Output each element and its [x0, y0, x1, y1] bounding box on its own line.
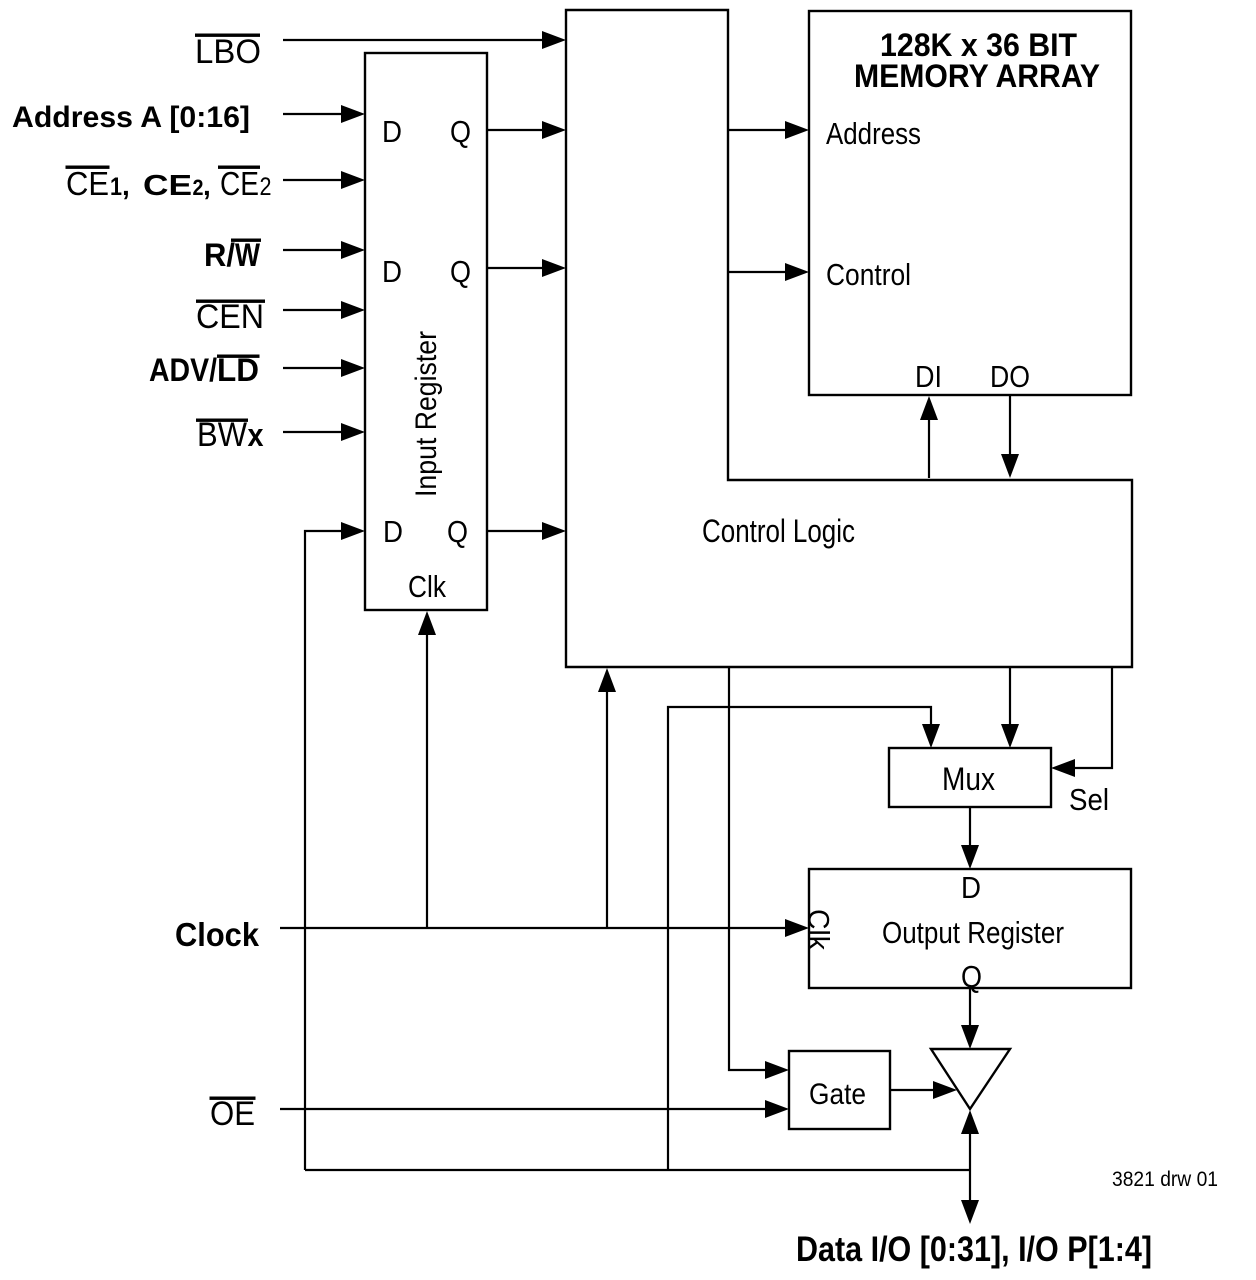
wire LBO to control logic: [283, 39, 546, 41]
wire control logic to mux input 2: [1009, 667, 1011, 728]
wire ADV/LD input: [283, 367, 345, 369]
svg-text:,: ,: [122, 170, 130, 201]
svg-text:Mux: Mux: [942, 761, 995, 797]
arrowhead LBO into control logic: [542, 31, 566, 49]
svg-text:2: 2: [193, 175, 204, 200]
svg-text:DO: DO: [990, 359, 1030, 394]
wire data feedback to D row3 (vertical riser): [305, 531, 345, 1170]
svg-text:3821 drw 01: 3821 drw 01: [1112, 1168, 1218, 1191]
svg-text:CE: CE: [143, 170, 192, 202]
svg-text:Q: Q: [450, 114, 471, 149]
arrowhead into memory Address: [785, 121, 809, 139]
arrowhead DI into memory array: [920, 396, 938, 420]
svg-text:Clk: Clk: [408, 569, 446, 604]
arrowhead feedback into D row3: [341, 522, 365, 540]
wire OE to gate input 2: [280, 1108, 769, 1110]
wire output register Q to buffer: [969, 988, 971, 1029]
svg-text:ADV/: ADV/: [149, 352, 217, 388]
wire Q row2 to control logic: [487, 267, 546, 269]
wire control logic to gate input 1: [729, 667, 769, 1070]
arrowhead CE into input register: [341, 171, 365, 189]
svg-text:Clock: Clock: [175, 916, 260, 953]
wire Sel from control logic to mux: [1075, 667, 1112, 768]
svg-text:LBO: LBO: [195, 33, 261, 71]
wire DO from memory down to control logic: [1009, 395, 1011, 458]
svg-text:x: x: [248, 417, 264, 453]
arrowhead Clock into output register Clk: [785, 919, 809, 937]
mux U4: [889, 748, 1051, 807]
svg-text:W: W: [235, 237, 261, 273]
wire I/O down to pads: [969, 1170, 971, 1204]
svg-text:Gate: Gate: [809, 1078, 866, 1111]
arrowhead DO into control logic: [1001, 454, 1019, 478]
arrowhead OE into gate input 2: [765, 1100, 789, 1118]
arrowhead CEN into input register: [341, 301, 365, 319]
svg-text:DI: DI: [915, 359, 942, 394]
wire control logic to memory Control: [728, 271, 789, 273]
svg-text:D: D: [382, 254, 402, 289]
svg-text:Control: Control: [826, 257, 911, 292]
overline of BW: [196, 419, 248, 422]
arrowhead into mux input 1: [922, 724, 940, 748]
control logic block U2: [566, 10, 1132, 667]
overline of CEN: [196, 300, 265, 303]
svg-text:CEN: CEN: [196, 298, 264, 336]
svg-text:MEMORY ARRAY: MEMORY ARRAY: [854, 58, 1100, 94]
overline of OE: [210, 1097, 256, 1100]
overline of CE2bar: [218, 166, 260, 169]
wire Q row1 to control logic: [487, 129, 546, 131]
wire mux output to output register D: [969, 807, 971, 849]
arrowhead gate output into buffer: [933, 1081, 957, 1099]
svg-text:Control Logic: Control Logic: [702, 513, 855, 549]
wire data-in feed to mux input 1: [668, 707, 931, 1170]
arrowhead into gate input 1: [765, 1061, 789, 1079]
wire R/W input: [283, 249, 345, 251]
svg-text:Q: Q: [450, 254, 471, 289]
svg-text:2: 2: [260, 173, 272, 201]
arrowhead Q row1 into control logic: [542, 121, 566, 139]
arrowhead Clock into control logic: [598, 668, 616, 692]
wire CE input: [283, 179, 345, 181]
wire gate output to buffer enable: [890, 1089, 935, 1091]
arrowhead Q row2 into control logic: [542, 259, 566, 277]
wire DI from control logic up to memory: [928, 418, 930, 478]
overline of LBO: [195, 34, 260, 37]
arrowhead Sel into mux: [1051, 759, 1075, 777]
wire Clock branch to control logic: [606, 688, 608, 928]
arrowhead into memory Control: [785, 263, 809, 281]
svg-text:Address: Address: [826, 116, 921, 151]
arrowhead into mux input 2: [1001, 724, 1019, 748]
svg-text:R/: R/: [204, 237, 235, 273]
svg-text:D: D: [382, 114, 402, 149]
svg-text:OE: OE: [210, 1095, 255, 1133]
svg-text:Sel: Sel: [1069, 782, 1109, 817]
svg-text:CE: CE: [66, 165, 109, 202]
arrowhead Address into input register: [341, 105, 365, 123]
wire Clock main run: [280, 927, 789, 929]
output register U5: [809, 869, 1131, 988]
wire Q row3 to control logic: [487, 530, 546, 532]
arrowhead Q into buffer triangle: [961, 1025, 979, 1049]
svg-text:1: 1: [110, 173, 122, 201]
input register box U1: [365, 53, 487, 610]
gate block U6: [789, 1051, 890, 1129]
overline of LD: [217, 355, 260, 358]
overline of CE1: [66, 166, 110, 169]
output buffer tri-state triangle: [931, 1049, 1010, 1109]
svg-text:D: D: [383, 514, 403, 549]
svg-text:Address A [0:16]: Address A [0:16]: [12, 101, 250, 134]
arrowhead R/W into input register: [341, 241, 365, 259]
arrowhead Clock into input register Clk: [418, 611, 436, 635]
arrowhead ADV/LD into input register: [341, 359, 365, 377]
svg-text:Q: Q: [447, 514, 468, 549]
arrowhead mux output into output register: [961, 845, 979, 869]
wire control logic to memory Address: [728, 129, 789, 131]
memory array block U3: [809, 11, 1131, 395]
wire CEN input: [283, 309, 345, 311]
wire I/O bottom rail: [305, 1169, 970, 1171]
svg-text:Data I/O [0:31], I/O P[1:4]: Data I/O [0:31], I/O P[1:4]: [796, 1230, 1152, 1269]
overline of W: [231, 239, 261, 242]
svg-text:Clk: Clk: [802, 909, 835, 951]
wire Address input: [283, 113, 345, 115]
wire Clock branch to input register Clk: [426, 630, 428, 928]
arrowhead BWx into input register: [341, 423, 365, 441]
svg-text:,: ,: [203, 170, 211, 201]
svg-text:D: D: [961, 870, 981, 905]
wire BWx input: [283, 431, 345, 433]
svg-text:Input Register: Input Register: [410, 331, 443, 497]
arrowhead down to Data I/O: [961, 1200, 979, 1224]
svg-text:CE: CE: [220, 165, 259, 202]
svg-text:Output Register: Output Register: [882, 915, 1064, 950]
arrowhead into buffer bottom: [961, 1110, 979, 1134]
arrowhead Q row3 into control logic: [542, 522, 566, 540]
svg-text:Q: Q: [961, 959, 982, 994]
wire I/O up into buffer bottom: [969, 1128, 971, 1170]
